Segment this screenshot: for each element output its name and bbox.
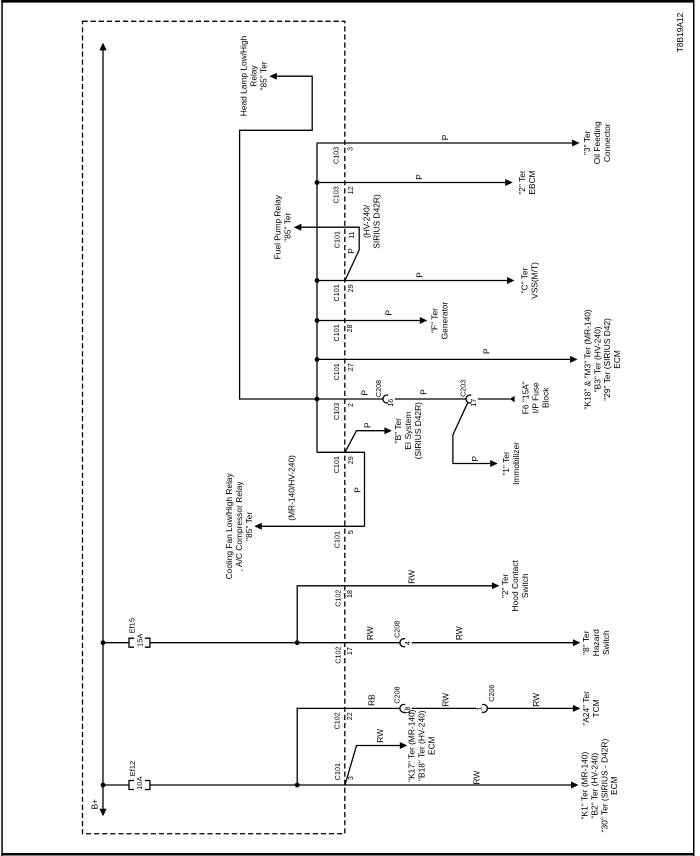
- svg-text:RW: RW: [440, 693, 450, 707]
- wire trunk bottom to C101-29 out: [317, 452, 365, 526]
- svg-text:EI System: EI System: [403, 412, 413, 450]
- svg-text:(HV-240/: (HV-240/: [362, 204, 372, 238]
- arrow to hazard switch: [573, 639, 581, 646]
- svg-text:3: 3: [346, 147, 355, 151]
- svg-text:RW: RW: [365, 626, 375, 640]
- svg-text:"C" Ter: "C" Ter: [520, 267, 530, 293]
- svg-text:"2" Ter: "2" Ter: [517, 170, 527, 195]
- wire jog to EI system: [345, 431, 385, 453]
- arrow to ECM K1: [571, 782, 579, 789]
- svg-text:12: 12: [346, 186, 355, 194]
- arrow to ECM K18: [570, 356, 578, 363]
- svg-text:EBCM: EBCM: [527, 170, 537, 194]
- arrow to EI system: [384, 427, 392, 434]
- svg-text:29: 29: [346, 284, 355, 292]
- junction on B+ bus at Ef12: [101, 783, 106, 788]
- svg-text:"8" Ter: "8" Ter: [581, 630, 591, 655]
- arrow to hood contact switch: [492, 582, 500, 589]
- svg-text:"A24" Ter: "A24" Ter: [581, 691, 591, 726]
- svg-text:RW: RW: [406, 570, 416, 584]
- splice C203 pin 17: [466, 395, 471, 403]
- splice C208 pin 18: [400, 704, 405, 712]
- svg-text:, A/C Compressor Relay: , A/C Compressor Relay: [234, 481, 244, 572]
- arrow from cooling fan relay: [254, 523, 261, 530]
- wire C103-3 to oil feeding connector: [317, 142, 572, 144]
- svg-text:RB: RB: [366, 694, 376, 706]
- splice C208 pin 16: [383, 395, 388, 403]
- svg-text:C101: C101: [333, 763, 342, 780]
- svg-text:VSS(M/T): VSS(M/T): [529, 262, 539, 299]
- svg-text:C103: C103: [332, 147, 341, 164]
- svg-text:"F" Ter: "F" Ter: [430, 308, 440, 333]
- wire C203 to immobilizer: [453, 403, 490, 464]
- svg-text:I/P Fuse: I/P Fuse: [530, 382, 540, 413]
- svg-text:"B" Ter: "B" Ter: [393, 418, 403, 444]
- svg-text:Fuel Pump Relay: Fuel Pump Relay: [273, 194, 283, 259]
- arrow from head lamp relay: [269, 73, 277, 80]
- wire C101-27 to ECM K18: [317, 358, 570, 360]
- svg-text:"29" Ter (SIRIUS D42): "29" Ter (SIRIUS D42): [602, 318, 612, 401]
- wire fuse Ef15 to junction: [150, 642, 297, 644]
- svg-text:Connector: Connector: [602, 123, 612, 162]
- svg-text:"B2" Ter (HV-240): "B2" Ter (HV-240): [589, 752, 599, 818]
- svg-text:Hazard: Hazard: [591, 629, 601, 656]
- page border frame: [1, 0, 694, 3]
- svg-text:Head Lamp Low/High: Head Lamp Low/High: [239, 35, 249, 116]
- svg-text:C102: C102: [333, 712, 342, 729]
- svg-text:Generator: Generator: [439, 301, 449, 339]
- node B+ bus bar: [102, 46, 104, 810]
- junction at C103-12: [315, 180, 320, 185]
- arrow to ECM K17: [400, 742, 408, 749]
- svg-text:16: 16: [386, 399, 395, 407]
- svg-text:17: 17: [345, 647, 354, 655]
- svg-text:SIRIUS D42R): SIRIUS D42R): [372, 194, 382, 249]
- svg-text:11: 11: [347, 231, 356, 238]
- svg-text:10A: 10A: [135, 777, 144, 790]
- svg-text:P: P: [353, 487, 363, 493]
- svg-text:28: 28: [345, 324, 354, 332]
- svg-text:"B18" Ter (HV-240): "B18" Ter (HV-240): [416, 710, 426, 781]
- svg-text:"B3" Ter (HV-240): "B3" Ter (HV-240): [592, 326, 602, 392]
- svg-text:P: P: [414, 174, 424, 180]
- trunk feed line: [316, 143, 318, 452]
- svg-text:P: P: [470, 455, 480, 461]
- svg-text:5: 5: [346, 530, 355, 534]
- svg-text:C208: C208: [393, 621, 402, 638]
- fuse box dashed boundary: [83, 21, 345, 833]
- svg-text:17: 17: [469, 399, 478, 407]
- svg-text:RW: RW: [531, 693, 541, 707]
- wire B+ to fuse Ef15: [103, 642, 129, 644]
- svg-text:C101: C101: [332, 363, 341, 380]
- junction at C101-29: [315, 278, 320, 283]
- junction at C101-28: [315, 318, 320, 323]
- arrow to VSS: [507, 277, 515, 284]
- arrow from fuel pump relay: [294, 224, 302, 231]
- wire main C101-3 to ECM: [297, 784, 571, 786]
- svg-text:Relay: Relay: [248, 64, 258, 86]
- node B+ terminal arrow: [99, 809, 106, 817]
- svg-text:C206: C206: [487, 685, 496, 702]
- svg-text:(SIRIUS D42R): (SIRIUS D42R): [413, 402, 423, 459]
- svg-text:F6 "15A": F6 "15A": [521, 381, 531, 414]
- wire splice C206 to TCM: [488, 707, 573, 709]
- svg-text:"30" Ter (SIRIUS - D42R): "30" Ter (SIRIUS - D42R): [599, 739, 609, 833]
- svg-text:C102: C102: [334, 590, 343, 607]
- svg-text:"2" Ter: "2" Ter: [500, 573, 510, 598]
- svg-text:ECM: ECM: [612, 350, 622, 369]
- wire C101-5 to cooling fan relay: [262, 525, 365, 527]
- svg-text:ECM: ECM: [426, 736, 436, 755]
- svg-text:RW: RW: [454, 626, 464, 640]
- wire C102-22 branch to TCM: [297, 708, 400, 785]
- svg-text:C103: C103: [332, 403, 341, 420]
- svg-text:T8B19A12: T8B19A12: [675, 12, 685, 52]
- svg-text:"85" Ter: "85" Ter: [282, 212, 292, 241]
- arrow from F6 fuse block: [510, 396, 515, 402]
- junction on B+ bus at Ef15: [101, 640, 106, 645]
- svg-text:4: 4: [403, 641, 412, 645]
- wire fuse Ef12 to junction: [150, 784, 297, 786]
- wire C101-28 to generator: [317, 320, 420, 322]
- svg-text:P: P: [384, 309, 394, 315]
- svg-text:29: 29: [346, 456, 355, 464]
- svg-text:(MR-140/HV-240): (MR-140/HV-240): [287, 455, 297, 521]
- svg-text:P: P: [415, 272, 425, 278]
- svg-text:C208: C208: [393, 686, 402, 703]
- arrow to immobilizer: [490, 460, 498, 467]
- wire B+ to fuse Ef12: [103, 784, 129, 786]
- wire head lamp relay loop: [240, 76, 317, 399]
- svg-text:18: 18: [403, 707, 412, 715]
- wire arrow up at bus top: [99, 43, 106, 51]
- svg-text:2: 2: [346, 403, 355, 407]
- fuse Ef12 10A: [129, 781, 134, 790]
- svg-text:Cooling Fan Low/High Relay: Cooling Fan Low/High Relay: [224, 472, 234, 579]
- svg-text:P: P: [363, 422, 373, 428]
- svg-text:P: P: [346, 248, 356, 254]
- wire C103-2 to splice C208-16: [317, 398, 383, 400]
- wire C102-18 branch to hood contact switch: [297, 586, 492, 643]
- arrow to TCM: [573, 705, 581, 712]
- arrow to EBCM: [505, 179, 513, 186]
- svg-text:Immobilizer: Immobilizer: [511, 442, 521, 485]
- wire fuel pump relay through C101-11: [301, 227, 360, 280]
- svg-text:P: P: [418, 389, 428, 395]
- svg-text:Ef12: Ef12: [128, 761, 137, 776]
- svg-text:RW: RW: [375, 729, 385, 743]
- wire jog to ECM K17: [345, 746, 400, 786]
- wire splice C208 to splice C206: [412, 707, 476, 709]
- svg-text:"85" Ter: "85" Ter: [258, 61, 268, 90]
- svg-text:C101: C101: [332, 284, 341, 301]
- svg-text:C101: C101: [332, 456, 341, 473]
- svg-text:C101: C101: [332, 324, 341, 341]
- svg-text:"3" Ter: "3" Ter: [582, 130, 592, 155]
- svg-text:C101: C101: [332, 531, 341, 548]
- svg-text:P: P: [360, 389, 370, 395]
- svg-text:RW: RW: [471, 771, 481, 785]
- svg-text:27: 27: [346, 363, 355, 371]
- svg-text:TCM: TCM: [591, 699, 601, 717]
- wire C103-12 to EBCM: [317, 182, 505, 184]
- svg-text:1: 1: [474, 707, 483, 711]
- svg-text:ECM: ECM: [609, 776, 619, 795]
- svg-text:B+: B+: [90, 799, 100, 810]
- svg-text:22: 22: [345, 712, 354, 720]
- svg-text:15A: 15A: [135, 634, 144, 647]
- splice C208 pin 4: [400, 639, 405, 647]
- svg-text:18: 18: [345, 590, 354, 598]
- svg-text:Switch: Switch: [520, 573, 530, 598]
- svg-text:C101: C101: [332, 231, 341, 248]
- fuse Ef15 15A: [129, 638, 134, 647]
- arrow to oil feeding connector: [572, 140, 580, 147]
- svg-text:C103: C103: [332, 186, 341, 203]
- svg-text:Switch: Switch: [601, 630, 611, 655]
- wire C101-29 to VSS: [317, 280, 507, 282]
- svg-text:Ef15: Ef15: [128, 618, 137, 633]
- svg-text:Hood Contact: Hood Contact: [510, 560, 520, 612]
- junction TCM/ECM split: [295, 783, 300, 788]
- svg-text:C102: C102: [334, 647, 343, 664]
- svg-text:Block: Block: [540, 387, 550, 408]
- svg-text:"85" Ter: "85" Ter: [244, 512, 254, 541]
- svg-text:P: P: [440, 134, 450, 140]
- arrow to generator: [420, 317, 428, 324]
- junction hazard/hood split: [295, 640, 300, 645]
- svg-text:C203: C203: [459, 380, 468, 397]
- junction at C103-2: [315, 397, 320, 402]
- wire C102-17 to splice C208-4: [297, 642, 400, 644]
- wire splice to hazard switch: [412, 642, 573, 644]
- svg-text:C208: C208: [374, 380, 383, 397]
- junction at C101-27: [315, 357, 320, 362]
- svg-text:"1" Ter: "1" Ter: [501, 451, 511, 476]
- svg-text:P: P: [482, 348, 492, 354]
- wire splice C203 to fuse block: [478, 398, 510, 400]
- svg-text:"K1" Ter (MR-140): "K1" Ter (MR-140): [580, 752, 590, 820]
- svg-text:"K18" & "M3" Ter (MR-140): "K18" & "M3" Ter (MR-140): [582, 309, 592, 409]
- svg-text:"K17" Ter (MR-140): "K17" Ter (MR-140): [407, 709, 417, 782]
- wire splice C208-16 to splice C203-17: [395, 398, 467, 400]
- svg-text:Oil Feeding: Oil Feeding: [592, 121, 602, 164]
